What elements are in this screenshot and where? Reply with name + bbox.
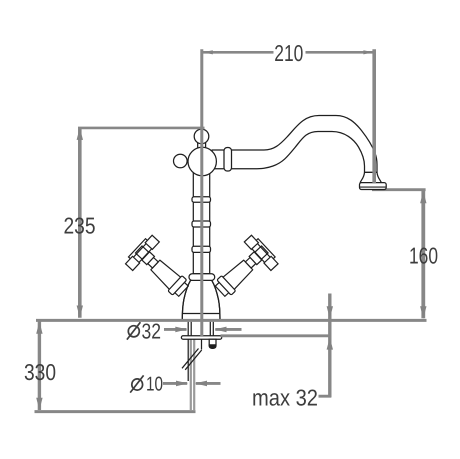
dimension max 32 — [319, 294, 334, 398]
dimension 210 line — [203, 50, 373, 54]
column bead ring 3 — [192, 246, 211, 252]
dimension phi10 — [130, 375, 220, 392]
valve body sphere — [188, 147, 216, 175]
dimension 160 horizontal leader (under spout flange) — [372, 188, 426, 191]
shank below deck — [188, 322, 213, 336]
faucet spout tube — [212, 116, 377, 173]
handle left (mirror) — [124, 234, 197, 306]
mounting bolt — [209, 339, 216, 348]
handle right — [207, 234, 280, 306]
spout outlet flange — [360, 172, 381, 182]
column bead ring 1 — [192, 197, 211, 202]
column bead ring 2 — [192, 221, 211, 227]
neck between finial and valve body — [198, 140, 206, 150]
hose bottom reference line — [35, 410, 196, 413]
svg-text:max 32: max 32 — [252, 385, 318, 411]
extension line right (spout outlet axis) — [372, 49, 376, 183]
finial ball — [194, 129, 209, 144]
left knob — [174, 154, 188, 168]
dimension 330 — [36, 321, 42, 410]
mounting washer — [181, 336, 221, 339]
svg-text:160: 160 — [409, 243, 438, 269]
bell skirt over handles — [182, 280, 220, 319]
extension line left (faucet centerline) — [200, 49, 203, 336]
hose grey tube — [191, 339, 194, 410]
pipe black edges — [187, 339, 189, 381]
svg-text:330: 330 — [24, 359, 56, 385]
svg-text:10: 10 — [146, 374, 163, 396]
dimension 160 — [420, 191, 426, 319]
dimension phi32 — [127, 322, 242, 339]
svg-text:235: 235 — [64, 212, 96, 238]
svg-text:210: 210 — [274, 40, 303, 66]
deck top line — [36, 319, 427, 322]
svg-text:32: 32 — [142, 319, 162, 343]
bell base — [182, 280, 220, 319]
break slash — [182, 349, 202, 370]
dimension 235 — [77, 128, 205, 318]
column body — [193, 172, 209, 274]
spout collar ring — [224, 148, 232, 172]
deck bottom line — [221, 334, 332, 337]
column bottom flange — [189, 274, 215, 281]
